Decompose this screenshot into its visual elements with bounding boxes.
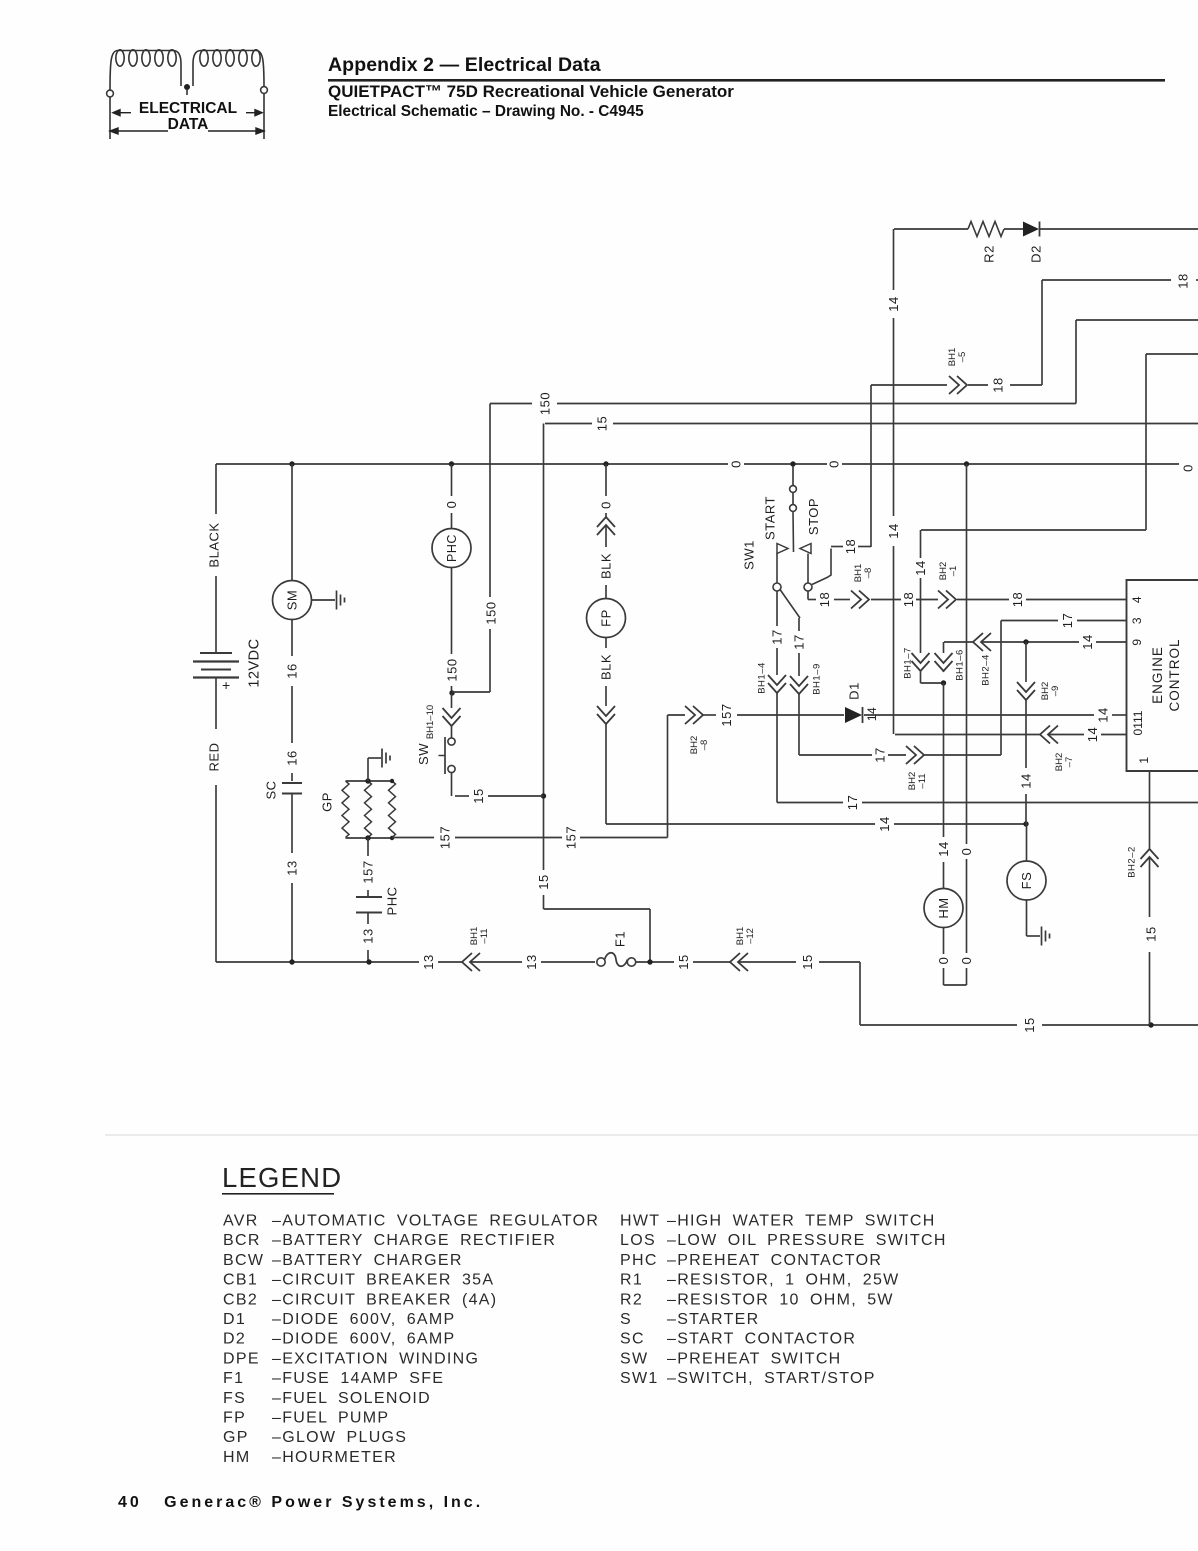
connector chevron FP bottom (597, 706, 615, 724)
wire 14 y=824 (606, 823, 875, 825)
battery BAT 12VDC (200, 652, 232, 654)
svg-text:R1: R1 (620, 1272, 643, 1289)
svg-text:FP: FP (223, 1410, 246, 1427)
wire 15 top y=423.5 (545, 423, 592, 425)
svg-text:150: 150 (445, 658, 460, 681)
wire 150 to junction (452, 691, 490, 693)
badge center tap (184, 84, 190, 90)
SW1 stop pivot (804, 583, 812, 591)
svg-text:–CIRCUIT BREAKER 35A: –CIRCUIT BREAKER 35A (272, 1272, 494, 1289)
wire riser x=1146 (1145, 354, 1147, 530)
wire FS to ground (1027, 935, 1041, 937)
wire riser x=1076 (1075, 320, 1077, 404)
junction bus/SM (289, 461, 294, 466)
junction bus/FP (603, 461, 608, 466)
junction BH1-7/BH1-6 (941, 680, 946, 685)
connector BH2-7 (1040, 726, 1058, 744)
svg-text:–SWITCH, START/STOP: –SWITCH, START/STOP (667, 1370, 876, 1387)
hourmeter HM (924, 889, 963, 928)
wire PHC contact column x=368 (367, 838, 369, 856)
svg-text:0: 0 (599, 501, 614, 509)
svg-text:3: 3 (1130, 617, 1144, 624)
svg-text:–FUEL PUMP: –FUEL PUMP (272, 1410, 389, 1427)
svg-text:–PREHEAT SWITCH: –PREHEAT SWITCH (667, 1350, 842, 1367)
svg-text:GP: GP (320, 792, 335, 812)
svg-text:12VDC: 12VDC (247, 638, 263, 687)
wire 18 jog y=546.5 (831, 546, 843, 548)
wire riser x=1042 (1041, 280, 1043, 385)
wire bus-0 y=464 (216, 463, 728, 465)
svg-text:150: 150 (538, 392, 553, 415)
connector BH1-12 (730, 953, 748, 971)
svg-text:14: 14 (913, 560, 928, 575)
wire y=320 to edge (1076, 319, 1198, 321)
schematic lower border (105, 1134, 1198, 1136)
connector BH1-5 (949, 376, 967, 394)
electrical-data badge left coil (110, 50, 264, 90)
wire 157 y=837.5 (392, 837, 434, 839)
svg-text:AVR: AVR (223, 1213, 259, 1230)
wire y=354 to edge (1146, 353, 1198, 355)
svg-text:14: 14 (936, 841, 951, 856)
wire battery column x=216 (215, 464, 217, 514)
wire BH1-9 column x=799 (798, 618, 800, 631)
SW1 blade (792, 512, 795, 553)
SW1 STOP contact (800, 544, 811, 554)
svg-text:–RESISTOR, 1 OHM, 25W: –RESISTOR, 1 OHM, 25W (667, 1272, 900, 1289)
junction GP top (365, 778, 370, 783)
svg-text:FP: FP (599, 609, 614, 627)
junction 14/FS (1023, 821, 1028, 826)
svg-text:18: 18 (817, 592, 832, 607)
svg-text:F1: F1 (613, 931, 628, 947)
svg-text:HWT: HWT (620, 1213, 660, 1230)
wire 17 y=755 (799, 754, 872, 756)
svg-text:SW1: SW1 (742, 540, 757, 570)
svg-text:BH1–10: BH1–10 (425, 705, 436, 739)
svg-text:0: 0 (827, 460, 842, 468)
legend entries (223, 1213, 947, 1466)
ground at FS (1042, 927, 1050, 946)
connector BH1-10 (451, 693, 453, 708)
wire R2 line y=229 (894, 228, 968, 230)
badge left terminal (107, 90, 114, 97)
switch SW1 start/stop (792, 466, 794, 485)
svg-text:–LOW OIL PRESSURE SWITCH: –LOW OIL PRESSURE SWITCH (667, 1232, 947, 1249)
svg-text:18: 18 (1176, 273, 1191, 288)
svg-text:17: 17 (1060, 613, 1075, 628)
connector BH2-1 (938, 591, 956, 609)
svg-text:STOP: STOP (806, 498, 821, 535)
start contactor SC (282, 782, 302, 784)
svg-text:LEGEND: LEGEND (222, 1162, 342, 1193)
wire 14 y=734.5 pin11 (895, 734, 1040, 736)
svg-text:17: 17 (845, 795, 860, 810)
wire 14 y=642 pin9 (944, 641, 973, 643)
svg-text:BCW: BCW (223, 1252, 264, 1269)
connector chevron FP top (597, 517, 615, 535)
svg-text:16: 16 (285, 750, 300, 765)
svg-text:0: 0 (1181, 464, 1196, 472)
wire 15 y=1025 (860, 1024, 1017, 1026)
fuel solenoid FS (1007, 861, 1046, 900)
svg-text:CB1: CB1 (223, 1272, 258, 1289)
svg-text:18: 18 (991, 377, 1006, 392)
wire y=909 (544, 908, 651, 910)
svg-text:–GLOW PLUGS: –GLOW PLUGS (272, 1429, 407, 1446)
svg-text:Appendix 2 — Electrical Data: Appendix 2 — Electrical Data (328, 54, 601, 76)
wire FP column x=606 (605, 464, 607, 496)
svg-text:SW1: SW1 (620, 1370, 659, 1387)
wire BH1-4 column x=777 (776, 591, 778, 626)
svg-text:D2: D2 (1029, 245, 1044, 263)
svg-text:BLACK: BLACK (207, 522, 222, 567)
junction bus/SW1 (790, 461, 795, 466)
wire GP bottom bar (346, 837, 393, 839)
svg-text:–CIRCUIT BREAKER (4A): –CIRCUIT BREAKER (4A) (272, 1291, 497, 1308)
wire riser x=667.5 (667, 715, 669, 838)
connector BH1-11 (462, 953, 480, 971)
svg-text:–DIODE 600V, 6AMP: –DIODE 600V, 6AMP (272, 1311, 455, 1328)
wire stop jog to 18 riser (812, 549, 831, 585)
wire BH1-5 y=385 (871, 384, 947, 386)
svg-text:14: 14 (865, 707, 879, 721)
junction 15/pin1 (1148, 1022, 1153, 1027)
svg-text:0: 0 (444, 501, 459, 509)
svg-text:14: 14 (1085, 727, 1100, 742)
svg-text:14: 14 (1096, 707, 1111, 722)
ground at GP (367, 758, 369, 781)
junction bus/HM-return (964, 461, 969, 466)
wire x=860 down (859, 962, 861, 1025)
svg-text:DPE: DPE (223, 1350, 260, 1367)
svg-text:–BATTERY CHARGE RECTIFIER: –BATTERY CHARGE RECTIFIER (272, 1232, 556, 1249)
svg-text:BCR: BCR (223, 1232, 261, 1249)
wire D2 cathode to edge (1040, 228, 1198, 230)
wire PHC column x=451.5 (451, 464, 453, 496)
wire 18 riser x=871 (870, 385, 872, 547)
svg-text:157: 157 (361, 860, 376, 883)
svg-text:+: + (222, 677, 230, 693)
junction GP bottom (365, 835, 370, 840)
svg-text:GP: GP (223, 1429, 249, 1446)
preheat contactor coil PHC (432, 529, 471, 568)
svg-text:BLK: BLK (599, 654, 614, 680)
badge dimension arrows (114, 130, 168, 132)
svg-text:13: 13 (421, 954, 436, 969)
connector BH1-9 (790, 676, 808, 694)
starter motor SM (273, 581, 312, 620)
preheat contactor contact PHC (356, 896, 382, 898)
svg-text:BH1–9: BH1–9 (811, 663, 822, 695)
svg-text:SW: SW (620, 1350, 648, 1367)
wire HM bottom loop (944, 984, 967, 986)
svg-text:HM: HM (223, 1449, 250, 1466)
engine control box U1 (1127, 580, 1198, 771)
junction bus/PHC contact (366, 959, 371, 964)
junction 150/SW (449, 690, 454, 695)
svg-text:17: 17 (873, 747, 888, 762)
svg-text:13: 13 (361, 928, 376, 943)
wire SW out (451, 773, 453, 797)
svg-text:SM: SM (285, 590, 300, 611)
junction 15/SW-out (541, 793, 546, 798)
svg-text:R2: R2 (620, 1291, 643, 1308)
badge small arrows (110, 110, 264, 134)
svg-text:–RESISTOR 10 OHM, 5W: –RESISTOR 10 OHM, 5W (667, 1291, 894, 1308)
svg-text:BLK: BLK (599, 553, 614, 579)
connector BH2-9 (1017, 682, 1035, 700)
svg-text:15: 15 (595, 416, 610, 431)
svg-text:FS: FS (1019, 872, 1034, 890)
svg-text:CB2: CB2 (223, 1291, 258, 1308)
svg-text:SC: SC (264, 780, 279, 799)
svg-text:BH1–7: BH1–7 (902, 647, 913, 679)
svg-text:BH2–11: BH2–11 (907, 772, 928, 790)
svg-text:–AUTOMATIC VOLTAGE REGULATOR: –AUTOMATIC VOLTAGE REGULATOR (272, 1213, 599, 1230)
svg-text:BH1–12: BH1–12 (735, 927, 756, 945)
svg-text:PHC: PHC (620, 1252, 658, 1269)
badge right terminal (261, 87, 268, 94)
svg-text:HM: HM (936, 897, 951, 918)
svg-text:14: 14 (1080, 634, 1095, 649)
wire 18 top y=280 (1042, 279, 1171, 281)
wire HM return x=966.5 (966, 464, 968, 844)
svg-text:PHC: PHC (445, 534, 459, 562)
svg-text:150: 150 (484, 601, 499, 624)
svg-text:0: 0 (729, 460, 744, 468)
wire 15 riser x=543.5 (543, 424, 545, 797)
svg-text:PHC: PHC (385, 887, 400, 916)
svg-text:13: 13 (524, 954, 539, 969)
wire FS column (1026, 824, 1028, 861)
connector BH1-4 (768, 675, 786, 693)
svg-text:4: 4 (1130, 596, 1144, 603)
svg-text:BH2–4: BH2–4 (980, 654, 991, 686)
svg-text:0: 0 (959, 848, 974, 856)
svg-text:157: 157 (564, 826, 579, 849)
svg-text:SW: SW (416, 743, 431, 765)
svg-text:40 Generac® Power Systems, I: 40 Generac® Power Systems, Inc. (118, 1494, 483, 1511)
wire riser x=1001 (1000, 621, 1002, 756)
svg-text:D1: D1 (223, 1311, 246, 1328)
ground at SM (312, 599, 336, 601)
connector BH2-11 (906, 746, 924, 764)
wire SW out y=796 (455, 795, 469, 797)
svg-text:–BATTERY CHARGER: –BATTERY CHARGER (272, 1252, 463, 1269)
wire GP top bar (346, 780, 393, 782)
svg-text:15: 15 (1022, 1017, 1037, 1032)
svg-text:BH1–11: BH1–11 (469, 927, 490, 945)
wire 18 y=599.5 pin4 (808, 599, 816, 601)
diode D1 (845, 707, 862, 723)
svg-text:15: 15 (800, 954, 815, 969)
svg-text:–START CONTACTOR: –START CONTACTOR (667, 1331, 856, 1348)
svg-text:18: 18 (843, 539, 858, 554)
svg-text:BH1–6: BH1–6 (954, 649, 965, 681)
svg-text:–STARTER: –STARTER (667, 1311, 760, 1328)
SW1 start blade diagonal (780, 590, 800, 619)
svg-text:9: 9 (1130, 638, 1144, 645)
wire 157/D1 y=715 pin10 (668, 714, 686, 716)
svg-text:S: S (620, 1311, 632, 1328)
svg-text:SC: SC (620, 1331, 645, 1348)
svg-text:14: 14 (886, 296, 901, 311)
svg-text:RED: RED (207, 743, 222, 772)
svg-text:START: START (763, 496, 778, 540)
svg-text:15: 15 (676, 954, 691, 969)
svg-text:BH1–4: BH1–4 (756, 662, 767, 694)
wire y=530 (921, 529, 1146, 531)
connector BH2-4 (973, 633, 991, 651)
svg-text:17: 17 (792, 634, 807, 649)
preheat switch SW (448, 738, 455, 745)
svg-text:0111: 0111 (1131, 710, 1145, 735)
svg-text:–EXCITATION WINDING: –EXCITATION WINDING (272, 1350, 479, 1367)
wire 150 riser x=490 (489, 404, 491, 598)
svg-text:15: 15 (536, 874, 551, 889)
wire 17 y=620.5 pin3 (1001, 620, 1058, 622)
wire 14 drop x=920.5 (920, 530, 922, 558)
svg-text:14: 14 (1019, 773, 1034, 788)
connector BH2-2 (1141, 849, 1159, 867)
svg-text:ELECTRICAL: ELECTRICAL (139, 100, 237, 117)
svg-text:BH2–2: BH2–2 (1126, 846, 1137, 878)
wire 17 y=802.5 (777, 802, 843, 804)
svg-text:F1: F1 (223, 1370, 244, 1387)
svg-text:FS: FS (223, 1390, 246, 1407)
svg-text:13: 13 (285, 860, 300, 875)
junction 14/BH2-9 (1023, 639, 1028, 644)
svg-text:0: 0 (936, 957, 951, 965)
svg-text:18: 18 (901, 592, 916, 607)
svg-text:17: 17 (770, 629, 785, 644)
wire x=650 down to fuse bus (649, 909, 651, 962)
svg-text:Electrical Schematic – Drawing: Electrical Schematic – Drawing No. - C49… (328, 103, 644, 120)
svg-text:D1: D1 (847, 682, 862, 700)
svg-text:1: 1 (1137, 756, 1151, 763)
diode D2 (1023, 222, 1039, 237)
svg-text:14: 14 (886, 523, 901, 538)
junction bus/SC (289, 959, 294, 964)
connector BH1-7 (912, 653, 930, 671)
wire y=683 (921, 682, 944, 684)
wire 14 riser x=893.5 (893, 229, 895, 290)
svg-text:15: 15 (471, 788, 486, 803)
SW1 START contact (777, 544, 788, 554)
fuel pump FP (587, 599, 626, 638)
wire bottom bus 13/15 y=962 (216, 961, 419, 963)
svg-text:–HIGH WATER TEMP SWITCH: –HIGH WATER TEMP SWITCH (667, 1213, 936, 1230)
svg-text:DATA: DATA (168, 116, 209, 133)
svg-text:15: 15 (1144, 926, 1159, 941)
svg-text:14: 14 (877, 816, 892, 831)
connector BH1-6 (935, 653, 953, 671)
svg-text:LOS: LOS (620, 1232, 656, 1249)
svg-text:R2: R2 (982, 245, 997, 263)
junction F1/15 (647, 959, 652, 964)
svg-text:–HOURMETER: –HOURMETER (272, 1449, 397, 1466)
connector BH2-8 (685, 706, 703, 724)
resistor R2 (968, 222, 1004, 237)
SW1 start pivot (773, 583, 781, 591)
connector BH1-8 (851, 591, 869, 609)
svg-text:–FUSE 14AMP SFE: –FUSE 14AMP SFE (272, 1370, 444, 1387)
svg-text:QUIETPACT™ 75D Recreational Ve: QUIETPACT™ 75D Recreational Vehicle Gene… (328, 82, 734, 101)
junction bus/PHC (449, 461, 454, 466)
svg-text:16: 16 (285, 663, 300, 678)
wire 150 top y=403.5 (490, 403, 532, 405)
wire SM column x=292 (291, 464, 293, 580)
wire HM column x=943.5 (943, 671, 945, 672)
wire pin1 column x=1149.5 (1149, 771, 1151, 849)
svg-text:157: 157 (719, 703, 734, 726)
svg-text:–DIODE 600V, 6AMP: –DIODE 600V, 6AMP (272, 1331, 455, 1348)
wire 18 top edge stub (1196, 279, 1198, 281)
svg-text:0: 0 (959, 957, 974, 965)
svg-text:18: 18 (1010, 592, 1025, 607)
svg-text:–FUEL SOLENOID: –FUEL SOLENOID (272, 1390, 431, 1407)
svg-text:D2: D2 (223, 1331, 246, 1348)
wire BH2-9 column x=1026 (1025, 642, 1027, 682)
svg-text:–PREHEAT CONTACTOR: –PREHEAT CONTACTOR (667, 1252, 882, 1269)
fuse F1 (597, 958, 605, 966)
wire stop lower (807, 591, 809, 600)
svg-text:157: 157 (438, 826, 453, 849)
